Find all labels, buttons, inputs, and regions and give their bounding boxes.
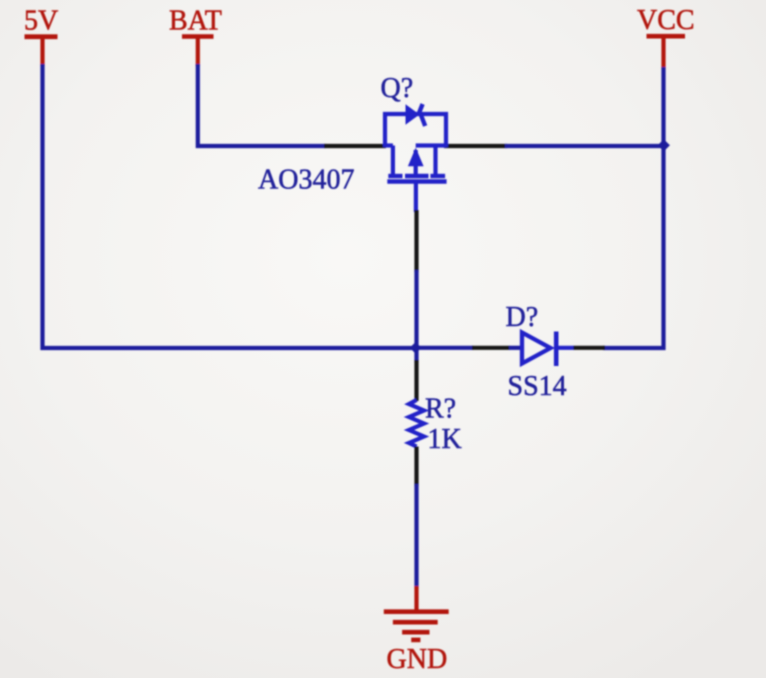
power pin stub 5V (red) bbox=[40, 38, 44, 66]
power pin stub VCC (red) bbox=[661, 38, 665, 69]
drain leg bbox=[433, 146, 437, 175]
svg-text:SS14: SS14 bbox=[508, 371, 567, 402]
gate plate bbox=[387, 179, 446, 183]
diode D1 SS14 triangle outline bbox=[522, 333, 551, 364]
junction node main bbox=[410, 342, 422, 354]
ground symbol bbox=[384, 612, 449, 640]
svg-text:R?: R? bbox=[425, 394, 456, 425]
body diode slanted cathode bar bbox=[420, 104, 426, 126]
body arrow head (up) bbox=[408, 148, 424, 167]
source leg bbox=[391, 146, 395, 175]
svg-text:VCC: VCC bbox=[637, 5, 695, 36]
wire (black pin) mosfet drain to right bbox=[444, 144, 507, 148]
svg-text:Q?: Q? bbox=[381, 73, 414, 104]
wire (black pin) diode right bbox=[573, 346, 605, 350]
wire 5V vertical down and horizontal to junction bbox=[43, 64, 416, 348]
ground bar 1 bbox=[384, 609, 449, 614]
svg-text:1K: 1K bbox=[428, 424, 462, 455]
drain channel foot bbox=[430, 174, 445, 178]
wire top right blue segment bbox=[505, 144, 662, 148]
resistor R1 zigzag bbox=[409, 400, 424, 447]
wire (black pin) below resistor bbox=[414, 447, 418, 487]
wire VCC vertical down to diode level then left bbox=[603, 146, 664, 348]
wire VCC vertical to top junction bbox=[661, 67, 665, 146]
ground bar 2 bbox=[393, 620, 438, 625]
wire junction down (blue stub) bbox=[414, 348, 418, 362]
body diode triangle (filled, pointing right) bbox=[406, 104, 420, 125]
gnd pin stub (red) bbox=[414, 586, 418, 611]
svg-text:5V: 5V bbox=[24, 6, 58, 37]
ground bar 4 bbox=[411, 638, 420, 643]
svg-text:AO3407: AO3407 bbox=[258, 165, 354, 196]
wire (black pin) mosfet gate down bbox=[414, 210, 418, 272]
wire blue down toward gnd bbox=[414, 484, 418, 588]
transistor Q1 AO3407 P-MOSFET body bbox=[385, 114, 447, 212]
ground bar 3 bbox=[402, 630, 429, 635]
wire (black pin) to resistor top bbox=[414, 360, 418, 401]
wire BAT down then right bbox=[198, 64, 326, 146]
diode D1 cathode bar bbox=[554, 332, 559, 367]
source channel foot bbox=[388, 174, 402, 178]
source jog bbox=[385, 143, 393, 147]
gate stub bbox=[414, 184, 418, 213]
power pin stub BAT (red) bbox=[196, 38, 200, 66]
svg-text:BAT: BAT bbox=[169, 6, 222, 37]
wire black pin to diode anode bbox=[472, 346, 510, 350]
junction node VCC/top wire bbox=[658, 139, 670, 151]
body-to-drain horizontal link bbox=[416, 143, 446, 147]
svg-text:GND: GND bbox=[387, 644, 448, 675]
body-diode loop bbox=[385, 114, 446, 147]
wire (black pin) BAT wire to mosfet source bbox=[324, 144, 386, 148]
wire gate to junction (blue) bbox=[414, 270, 418, 348]
wire short blue to triangle bbox=[509, 346, 523, 350]
middle channel foot bbox=[405, 174, 429, 178]
power bar VCC bbox=[647, 34, 686, 39]
wire diode cathode stub (blue) bbox=[556, 346, 574, 350]
power bar BAT bbox=[182, 34, 214, 39]
body arrow line bbox=[414, 150, 418, 175]
power bar 5V bbox=[25, 34, 58, 39]
svg-text:D?: D? bbox=[506, 302, 539, 333]
wire junction to diode (blue then black pin then blue) bbox=[415, 346, 473, 350]
